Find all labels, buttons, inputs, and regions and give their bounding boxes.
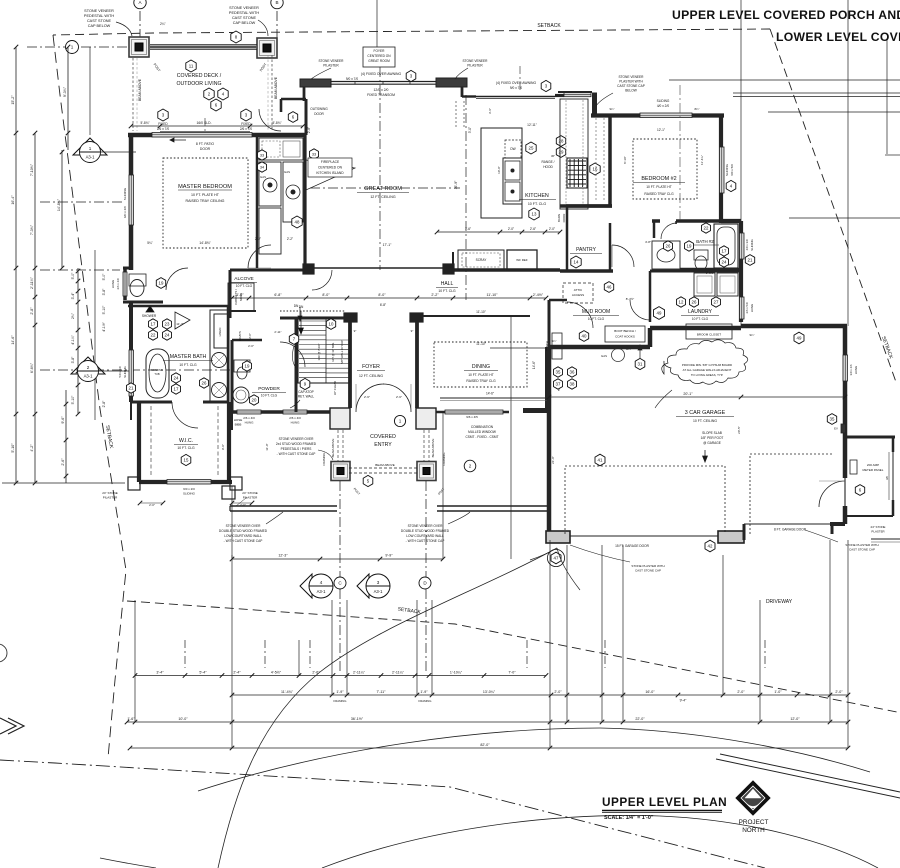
svg-text:3'-8": 3'-8" (71, 356, 75, 364)
svg-text:FIXED: FIXED (158, 122, 168, 126)
svg-text:9'-6½": 9'-6½" (706, 271, 714, 275)
svg-text:STONE PLASTER WITH: STONE PLASTER WITH (631, 564, 664, 568)
svg-text:PILASTER: PILASTER (243, 496, 258, 500)
svg-text:SCALE: 1/4" = 1'-0": SCALE: 1/4" = 1'-0" (604, 815, 654, 821)
svg-text:4/0 x 3/0: 4/0 x 3/0 (745, 239, 749, 250)
svg-text:10 FT. CLG: 10 FT. CLG (528, 202, 547, 206)
3 car garage (741, 324, 847, 329)
svg-text:ACCESS: ACCESS (572, 293, 584, 297)
svg-text:CAST STONE: CAST STONE (232, 16, 257, 20)
svg-text:POWDER: POWDER (258, 386, 280, 392)
svg-text:6/0 x 2/0: 6/0 x 2/0 (123, 206, 127, 218)
svg-text:4'-2": 4'-2" (30, 444, 34, 452)
svg-text:RAISED TRAY CEILING: RAISED TRAY CEILING (186, 199, 225, 203)
svg-text:36'-1½": 36'-1½" (351, 717, 364, 721)
svg-text:BEDROOM #2: BEDROOM #2 (641, 176, 676, 182)
svg-text:PLASTER WITH: PLASTER WITH (619, 80, 643, 84)
svg-text:9'-0": 9'-0" (221, 444, 225, 450)
svg-text:OUTSWING: OUTSWING (310, 107, 328, 111)
svg-text:14'-8¼": 14'-8¼" (57, 198, 61, 211)
svg-text:17: 17 (174, 387, 179, 392)
svg-text:12 FT. CEILING: 12 FT. CEILING (370, 195, 396, 199)
svg-text:PEDESTAL WITH: PEDESTAL WITH (229, 11, 259, 15)
svg-text:1'-9": 1'-9" (336, 690, 344, 694)
svg-text:3'-0": 3'-0" (468, 127, 472, 133)
svg-text:10 FT. CEILING: 10 FT. CEILING (693, 419, 717, 423)
svg-text:2'-0": 2'-0" (508, 227, 514, 231)
svg-text:21'-0": 21'-0" (551, 456, 555, 464)
svg-text:CAP BELOW: CAP BELOW (88, 24, 111, 28)
svg-text:34: 34 (260, 166, 264, 170)
svg-text:2'-8": 2'-8" (102, 400, 106, 408)
svg-text:3: 3 (377, 580, 380, 585)
svg-text:DINING: DINING (472, 364, 490, 370)
svg-text:17: 17 (722, 249, 727, 254)
svg-text:1'-0": 1'-0" (774, 690, 782, 694)
svg-text:MASTER BATH: MASTER BATH (170, 354, 207, 360)
svg-text:HUNG: HUNG (854, 365, 858, 374)
svg-text:- WITH CAST STONE CAP: - WITH CAST STONE CAP (277, 452, 316, 456)
svg-text:GAS: GAS (284, 170, 290, 174)
svg-text:FRAMING: FRAMING (322, 453, 326, 466)
svg-text:CAST STONE: CAST STONE (87, 19, 112, 23)
svg-text:2'-2": 2'-2" (255, 237, 261, 241)
svg-text:16/0 SLD.: 16/0 SLD. (196, 121, 211, 125)
svg-text:26: 26 (202, 381, 207, 386)
svg-text:15: 15 (184, 458, 189, 463)
svg-text:35: 35 (830, 417, 835, 422)
master bath and walk-in closet (123, 267, 131, 270)
svg-text:STONE PLASTER WITH: STONE PLASTER WITH (845, 543, 878, 547)
svg-text:GREAT ROOM: GREAT ROOM (364, 186, 402, 192)
svg-text:48: 48 (295, 220, 300, 225)
svg-text:2'-0": 2'-0" (737, 690, 745, 694)
svg-text:15'-2": 15'-2" (11, 95, 15, 105)
svg-text:14'-6": 14'-6" (486, 392, 494, 396)
svg-text:B: B (275, 0, 278, 5)
svg-text:HUNG: HUNG (291, 421, 300, 425)
svg-text:KITCHEN: KITCHEN (525, 193, 549, 199)
svg-text:2'-8": 2'-8" (307, 127, 311, 133)
svg-text:40: 40 (582, 334, 587, 339)
svg-text:3'-4": 3'-4" (156, 670, 164, 674)
svg-text:37: 37 (556, 382, 561, 387)
svg-text:1: 1 (71, 45, 74, 50)
svg-text:10: 10 (329, 322, 334, 327)
svg-text:DRIVEWAY: DRIVEWAY (766, 599, 793, 605)
svg-text:28: 28 (559, 139, 564, 144)
svg-text:2'-0": 2'-0" (554, 690, 562, 694)
svg-text:19: 19 (687, 244, 692, 249)
svg-text:7'-10¾": 7'-10¾" (30, 163, 34, 176)
svg-text:CSMT - FIXED - CSMT: CSMT - FIXED - CSMT (465, 435, 498, 439)
svg-text:9": 9" (411, 329, 414, 333)
svg-text:CAST STONE CAP: CAST STONE CAP (617, 84, 645, 88)
svg-text:PLASTER: PLASTER (871, 530, 884, 534)
svg-text:3'-4": 3'-4" (71, 292, 75, 300)
svg-text:GAS: GAS (260, 175, 266, 179)
svg-text:PILASTER: PILASTER (467, 64, 483, 68)
svg-text:6'-8": 6'-8" (380, 303, 386, 307)
svg-text:24: 24 (165, 333, 170, 338)
svg-text:A3-1: A3-1 (317, 589, 327, 594)
svg-text:9¼": 9¼" (552, 339, 557, 343)
svg-text:12'-11": 12'-11" (527, 123, 537, 127)
svg-text:20'-1": 20'-1" (683, 392, 693, 396)
master bedroom (128, 133, 306, 138)
svg-text:2/6 x 4/0: 2/6 x 4/0 (116, 278, 120, 289)
svg-text:SLIDING: SLIDING (750, 238, 754, 250)
svg-text:22'-0": 22'-0" (635, 717, 645, 721)
svg-text:BEAM ABOVE: BEAM ABOVE (331, 439, 335, 458)
svg-text:9'-9": 9'-9" (385, 554, 393, 558)
svg-text:SLIDING: SLIDING (123, 187, 127, 200)
svg-text:6'-6¼": 6'-6¼" (30, 362, 34, 373)
svg-text:4'-1½": 4'-1½" (102, 321, 106, 331)
svg-text:(4) FIXED OVER AWNING: (4) FIXED OVER AWNING (496, 81, 537, 85)
svg-text:RAISED TRAY CLG: RAISED TRAY CLG (644, 192, 674, 196)
svg-text:13'-0¼": 13'-0¼" (483, 690, 496, 694)
svg-text:COVERED DECK /: COVERED DECK / (177, 73, 222, 79)
svg-text:LOW COURTYARD WALL: LOW COURTYARD WALL (224, 534, 262, 538)
svg-text:2: 2 (87, 365, 90, 370)
svg-text:STONE VENEER: STONE VENEER (463, 59, 489, 63)
svg-text:8 FT. GARAGE DOOR: 8 FT. GARAGE DOOR (774, 528, 807, 532)
svg-text:STONE VENEER OVER: STONE VENEER OVER (226, 524, 262, 528)
svg-text:STONE VENEER: STONE VENEER (229, 6, 259, 10)
svg-text:- WITH CAST STONE CAP: - WITH CAST STONE CAP (224, 539, 263, 543)
svg-text:5'-4": 5'-4" (199, 670, 207, 674)
kitchen (462, 95, 476, 97)
svg-text:SLIDING: SLIDING (123, 365, 127, 377)
svg-text:8'-4½": 8'-4½" (626, 297, 634, 301)
svg-text:HOSE: HOSE (234, 418, 243, 422)
svg-text:12 FT. CEILING: 12 FT. CEILING (359, 374, 383, 378)
svg-text:2/6 x 5/0: 2/6 x 5/0 (745, 302, 749, 313)
svg-text:11'-10": 11'-10" (487, 293, 499, 297)
svg-text:DOOR: DOOR (200, 147, 211, 151)
svg-text:PROJECT: PROJECT (739, 819, 769, 826)
svg-text:BATH #2: BATH #2 (696, 239, 714, 244)
svg-text:4'-5½": 4'-5½" (271, 670, 282, 674)
svg-text:GREAT ROOM: GREAT ROOM (368, 59, 390, 63)
svg-text:3'-6": 3'-6" (488, 108, 492, 114)
svg-text:DN: DN (299, 305, 304, 309)
svg-text:RET. WALL: RET. WALL (298, 395, 315, 399)
svg-text:47: 47 (554, 556, 559, 561)
svg-text:33: 33 (312, 153, 316, 157)
svg-text:12/0 x 2/0: 12/0 x 2/0 (374, 88, 389, 92)
svg-text:26: 26 (666, 244, 671, 249)
svg-text:31: 31 (638, 362, 643, 367)
svg-text:36: 36 (570, 370, 575, 375)
svg-text:26: 26 (692, 300, 697, 305)
svg-text:HUNG: HUNG (111, 279, 115, 288)
svg-text:FRAMING: FRAMING (419, 699, 432, 703)
svg-text:LINEN: LINEN (218, 328, 222, 337)
svg-text:BELOW: BELOW (625, 89, 637, 93)
svg-text:1'-9": 1'-9" (420, 690, 428, 694)
svg-text:HOOD: HOOD (543, 165, 553, 169)
svg-text:20'-5": 20'-5" (737, 426, 741, 434)
svg-text:@ GARAGE: @ GARAGE (703, 441, 721, 445)
svg-text:2'-2": 2'-2" (431, 293, 439, 297)
svg-text:9'-3¼": 9'-3¼" (63, 86, 67, 97)
svg-text:5/0 x 6/0: 5/0 x 6/0 (118, 366, 122, 377)
great room (300, 79, 331, 87)
svg-text:8'-10": 8'-10" (623, 156, 627, 164)
svg-text:2'-0": 2'-0" (248, 333, 252, 339)
meter panel stoop (845, 436, 895, 439)
svg-text:- WITH CAST STONE CAP: - WITH CAST STONE CAP (406, 539, 445, 543)
svg-text:16: 16 (593, 167, 598, 172)
svg-text:10 FT. CLG: 10 FT. CLG (177, 446, 195, 450)
covered deck / outdoor living (129, 37, 149, 57)
svg-text:5'-0": 5'-0" (71, 272, 75, 280)
svg-text:CENTERED ON: CENTERED ON (318, 166, 343, 170)
svg-text:10 FT. CLG: 10 FT. CLG (236, 284, 253, 288)
svg-text:LOW COURTYARD WALL: LOW COURTYARD WALL (406, 534, 444, 538)
svg-text:SCRAY: SCRAY (476, 258, 488, 262)
svg-text:2'-6": 2'-6" (240, 503, 246, 507)
svg-text:10 FT. CLG: 10 FT. CLG (692, 317, 709, 321)
svg-text:9¼": 9¼" (610, 107, 615, 111)
svg-text:24: 24 (174, 376, 179, 381)
svg-text:11: 11 (189, 64, 194, 69)
svg-text:22: 22 (704, 226, 709, 231)
svg-text:PEDESTAL WITH: PEDESTAL WITH (84, 14, 114, 18)
svg-text:14'-6": 14'-6" (532, 361, 536, 369)
svg-text:2'-6": 2'-6" (530, 227, 536, 231)
svg-text:21: 21 (748, 258, 753, 263)
svg-text:33: 33 (260, 154, 264, 158)
svg-text:11'-10": 11'-10" (476, 342, 486, 346)
svg-text:W.I.C.: W.I.C. (179, 438, 193, 444)
svg-text:2'-11¼": 2'-11¼" (353, 670, 366, 674)
svg-text:5'-0": 5'-0" (102, 273, 106, 281)
svg-text:CABINETS /: CABINETS / (234, 289, 238, 305)
svg-text:2'-6": 2'-6" (364, 395, 370, 399)
svg-text:DOOR: DOOR (562, 214, 566, 223)
svg-text:ATTIC: ATTIC (574, 288, 583, 292)
svg-text:2/6 x 7/0: 2/6 x 7/0 (240, 127, 252, 131)
svg-text:GAS: GAS (601, 354, 607, 358)
svg-text:STONE VENEER: STONE VENEER (319, 59, 345, 63)
svg-text:38: 38 (570, 382, 575, 387)
svg-text:KITCHEN ISLAND: KITCHEN ISLAND (316, 171, 344, 175)
svg-text:4'-1¼": 4'-1¼" (71, 334, 75, 344)
svg-text:2'-0": 2'-0" (549, 227, 555, 231)
svg-text:9/0 x 7/0: 9/0 x 7/0 (510, 86, 522, 90)
svg-text:13R @ 7-3/4": 13R @ 7-3/4" (317, 344, 321, 361)
svg-text:CENTERED ON: CENTERED ON (367, 54, 391, 58)
svg-text:BEAM ABOVE: BEAM ABOVE (138, 78, 142, 101)
svg-text:COATS: COATS (238, 331, 242, 341)
svg-text:UPPER LEVEL PLAN: UPPER LEVEL PLAN (602, 795, 727, 809)
section markers (331, 600, 333, 695)
svg-text:11'-4¾": 11'-4¾" (700, 155, 704, 165)
svg-text:19: 19 (159, 281, 164, 286)
svg-text:BEAM ABOVE: BEAM ABOVE (375, 463, 395, 467)
svg-text:FIREPLACE: FIREPLACE (321, 160, 340, 164)
svg-text:1: 1 (89, 146, 92, 151)
svg-text:EV: EV (834, 427, 838, 431)
svg-text:5'-10": 5'-10" (102, 305, 106, 314)
svg-text:5'-8¾": 5'-8¾" (272, 121, 281, 125)
svg-text:46: 46 (607, 285, 612, 290)
svg-text:AT ALL GARAGE WALLS ADJACENT: AT ALL GARAGE WALLS ADJACENT (683, 368, 732, 372)
setback and property lines (53, 29, 770, 35)
svg-text:2'-0": 2'-0" (149, 503, 155, 507)
svg-text:1'-6": 1'-6" (127, 717, 135, 721)
svg-text:DOUBLE STUD WOOD FRAMED: DOUBLE STUD WOOD FRAMED (401, 529, 450, 533)
svg-text:4/0 x 2/0: 4/0 x 2/0 (657, 104, 669, 108)
svg-text:12: 12 (679, 300, 684, 305)
svg-text:10'-0": 10'-0" (178, 717, 188, 721)
svg-text:BEAM ABOVE: BEAM ABOVE (431, 439, 435, 458)
svg-text:8 FT. PATIO: 8 FT. PATIO (196, 142, 215, 146)
svg-text:5'-10": 5'-10" (71, 395, 75, 404)
svg-text:2'-4½": 2'-4½" (533, 293, 544, 297)
svg-text:CAP ATOP: CAP ATOP (298, 390, 314, 394)
svg-text:8'-0": 8'-0" (322, 293, 330, 297)
svg-text:SLIDING: SLIDING (725, 163, 729, 176)
svg-text:PANTRY: PANTRY (576, 247, 596, 253)
svg-text:35: 35 (556, 370, 561, 375)
svg-text:COAT HOOKS: COAT HOOKS (615, 335, 635, 339)
svg-text:SOAKING: SOAKING (151, 368, 163, 372)
svg-text:27: 27 (714, 300, 719, 305)
svg-text:CAST STONE CAP: CAST STONE CAP (849, 548, 875, 552)
svg-text:CAST STONE CAP: CAST STONE CAP (635, 569, 661, 573)
svg-text:COVERED: COVERED (370, 434, 396, 440)
foyer and dining (344, 313, 357, 322)
svg-text:2'-6": 2'-6" (396, 395, 402, 399)
svg-text:6/0 x 5/0: 6/0 x 5/0 (730, 164, 734, 176)
svg-text:10 FT. PLATE HT: 10 FT. PLATE HT (191, 193, 220, 197)
bath 2 (714, 224, 738, 268)
svg-text:2/6 x 4/0: 2/6 x 4/0 (289, 416, 301, 420)
svg-text:METER PANEL: METER PANEL (863, 468, 884, 472)
svg-text:13: 13 (532, 212, 537, 217)
svg-text:2'-2": 2'-2" (287, 237, 293, 241)
svg-text:FRAMING: FRAMING (334, 699, 347, 703)
svg-text:2¼": 2¼" (160, 22, 166, 26)
svg-text:22: 22 (151, 333, 156, 338)
svg-text:FIXED: FIXED (241, 122, 251, 126)
svg-text:NORTH: NORTH (742, 827, 765, 834)
svg-text:HUNG: HUNG (245, 421, 254, 425)
svg-text:5'-10": 5'-10" (11, 443, 15, 453)
svg-text:A3-1: A3-1 (84, 374, 94, 379)
svg-text:FIXED TRANSOM: FIXED TRANSOM (367, 93, 395, 97)
svg-text:2'-4": 2'-4" (233, 670, 241, 674)
svg-text:8¼": 8¼" (695, 107, 700, 111)
svg-text:COMBINATION: COMBINATION (471, 425, 494, 429)
svg-text:2'-8": 2'-8" (30, 307, 34, 315)
svg-text:82'-0": 82'-0" (480, 743, 490, 747)
svg-text:12T @ 11" MIN.: 12T @ 11" MIN. (331, 342, 335, 362)
svg-text:TO LIVING AREAS, TYP.: TO LIVING AREAS, TYP. (691, 373, 723, 377)
svg-text:1: 1 (399, 419, 402, 424)
svg-text:DW: DW (510, 147, 515, 151)
svg-text:STONE VENEER: STONE VENEER (619, 75, 645, 79)
svg-text:200 AMP: 200 AMP (867, 463, 879, 467)
svg-text:2'-11": 2'-11" (274, 330, 281, 334)
svg-text:LAUNDRY: LAUNDRY (688, 309, 712, 315)
svg-text:24" STONE: 24" STONE (242, 491, 258, 495)
svg-text:HALL: HALL (441, 281, 454, 287)
svg-text:8'-0": 8'-0" (378, 293, 386, 297)
svg-text:15 FT. GARAGE DOOR: 15 FT. GARAGE DOOR (615, 544, 650, 548)
left margin dimensions (15, 47, 17, 483)
svg-text:24: 24 (722, 260, 727, 265)
svg-text:SHOWER: SHOWER (142, 314, 157, 318)
svg-text:2x4 STUD WOOD FRAMED: 2x4 STUD WOOD FRAMED (276, 442, 317, 446)
svg-text:49: 49 (657, 311, 662, 316)
svg-text:5/8" WALL W/ CAP: 5/8" WALL W/ CAP (340, 340, 344, 364)
svg-text:OUTDOOR LIVING: OUTDOOR LIVING (177, 81, 222, 87)
svg-text:12'-0": 12'-0" (790, 717, 800, 721)
svg-text:LOWER LEVEL COVERED PO: LOWER LEVEL COVERED PO (776, 30, 900, 44)
svg-text:SLIDING: SLIDING (657, 99, 670, 103)
svg-text:WF REF: WF REF (516, 258, 528, 262)
svg-text:DOOR: DOOR (314, 112, 324, 116)
svg-text:BOOT BENCH /: BOOT BENCH / (614, 329, 636, 333)
svg-text:12'-1": 12'-1" (657, 128, 665, 132)
bottom dimension rows (134, 600, 136, 722)
svg-text:FOYER: FOYER (362, 364, 380, 370)
svg-text:PILASTER: PILASTER (103, 496, 118, 500)
svg-text:10 FT. CLG: 10 FT. CLG (261, 394, 278, 398)
svg-text:2'-11¼": 2'-11¼" (392, 670, 405, 674)
svg-text:29: 29 (559, 150, 564, 155)
svg-text:9/0 x 7/0: 9/0 x 7/0 (346, 77, 358, 81)
svg-text:BIBB: BIBB (235, 423, 242, 427)
svg-text:21: 21 (129, 386, 134, 391)
svg-text:ALCOVE: ALCOVE (234, 276, 253, 282)
svg-text:MASTER BEDROOM: MASTER BEDROOM (178, 184, 232, 190)
svg-text:24" STONE: 24" STONE (871, 525, 886, 529)
svg-text:NOOK: NOOK (239, 293, 243, 301)
svg-text:9": 9" (354, 329, 357, 333)
svg-text:3 CAR GARAGE: 3 CAR GARAGE (685, 410, 726, 416)
svg-text:10 FT. CLG: 10 FT. CLG (588, 317, 605, 321)
svg-text:PEDESTALS / PIERS: PEDESTALS / PIERS (281, 447, 312, 451)
svg-text:19: 19 (245, 364, 250, 369)
svg-text:1'-10¼": 1'-10¼" (450, 670, 463, 674)
svg-text:2'-0": 2'-0" (835, 690, 843, 694)
svg-text:4'-8": 4'-8" (645, 240, 651, 244)
svg-text:4: 4 (320, 580, 323, 585)
svg-text:5'-8¾": 5'-8¾" (140, 121, 149, 125)
svg-text:PROVIDE MIN. 5/8" GYPSUM BOARD: PROVIDE MIN. 5/8" GYPSUM BOARD (682, 363, 732, 367)
svg-text:10 FT. CLG: 10 FT. CLG (179, 363, 197, 367)
svg-text:14'-8¾": 14'-8¾" (199, 241, 211, 245)
svg-text:DN: DN (294, 304, 299, 308)
svg-text:STONE VENEER: STONE VENEER (84, 9, 114, 13)
svg-text:16'-0": 16'-0" (645, 690, 655, 694)
svg-text:11'-0": 11'-0" (265, 443, 269, 450)
bedroom 2 (591, 113, 724, 117)
svg-text:9¼": 9¼" (750, 333, 755, 337)
svg-text:2'-6": 2'-6" (61, 458, 65, 466)
svg-text:BEAM ABOVE: BEAM ABOVE (274, 76, 278, 99)
svg-text:9/6 x 4/5: 9/6 x 4/5 (466, 415, 478, 419)
svg-text:BROOM CLOSET: BROOM CLOSET (697, 333, 721, 337)
svg-text:12'-3": 12'-3" (278, 554, 288, 558)
svg-text:3/0 x 4/6: 3/0 x 4/6 (849, 364, 853, 375)
